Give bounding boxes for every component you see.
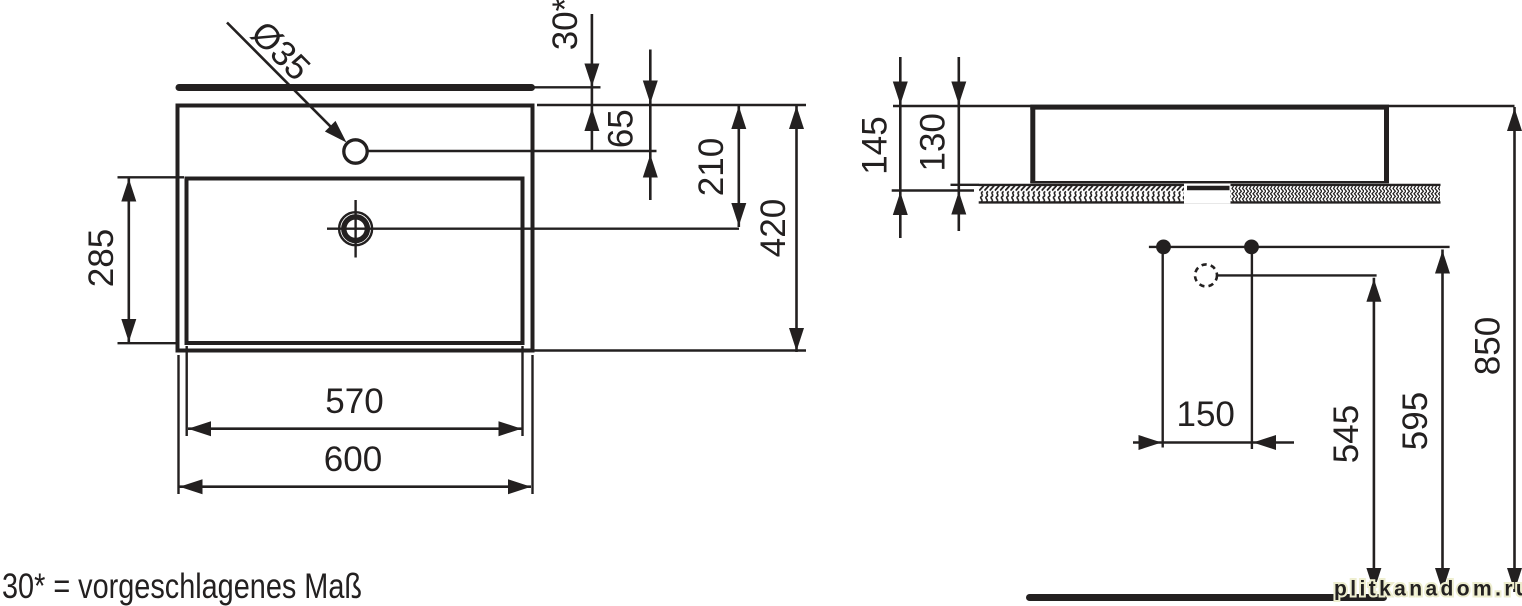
dim 570 line (188, 427, 522, 430)
dim 130 line (957, 57, 960, 231)
dim 145 bottom extension line (892, 189, 974, 191)
dim 30* line (591, 14, 594, 151)
side view body: top edge (thick) (1030, 105, 1389, 110)
basin inner rectangle (187, 179, 523, 344)
svg-text:145: 145 (855, 116, 894, 174)
dim 145/130 extension tick at strip top (951, 184, 980, 186)
drain gap white window (1184, 184, 1231, 204)
dim 570 extension left (185, 346, 187, 436)
basin outer rectangle (178, 106, 533, 351)
fixing bolts line (1149, 246, 1450, 248)
dim 420 line (795, 105, 798, 352)
side view right edge (1384, 105, 1389, 183)
drain outlet dashed circle (1195, 264, 1217, 286)
drain crosshair horizontal line (extends to 210 dim) (327, 227, 739, 229)
mounting strip top line (979, 184, 1441, 186)
svg-text:545: 545 (1327, 405, 1366, 463)
wall extension line (534, 86, 601, 88)
dim 210 line (737, 105, 740, 227)
svg-text:420: 420 (754, 199, 793, 257)
dim 285 extension bottom (118, 342, 177, 344)
dim 150 line (1133, 441, 1294, 444)
sink-top extension line (537, 104, 806, 106)
floor line (thick) (1030, 594, 1384, 601)
dim 600 extension left (177, 355, 179, 494)
left bolt vertical line (1161, 247, 1163, 448)
svg-text:595: 595 (1396, 392, 1435, 450)
drain outlet line (1218, 274, 1377, 276)
svg-text:850: 850 (1469, 317, 1508, 375)
side view left edge (1030, 105, 1035, 183)
dim 285 extension top (118, 176, 185, 178)
drain gap thick line (1187, 186, 1230, 190)
svg-text:210: 210 (692, 138, 731, 196)
svg-text:600: 600 (324, 440, 382, 479)
leader arrowhead (325, 121, 347, 143)
drain inner circle (344, 217, 368, 241)
wall line (thick) (179, 84, 532, 91)
dim 850 line (1513, 107, 1516, 592)
drain crosshair vertical line (354, 200, 356, 258)
svg-text:30* = vorgeschlagenes Maß: 30* = vorgeschlagenes Maß (2, 567, 362, 606)
svg-text:plitkanadom.ru: plitkanadom.ru (1334, 578, 1522, 601)
top extension line (893, 105, 1515, 107)
faucet hole circle (344, 140, 367, 163)
svg-text:30*: 30* (546, 0, 585, 50)
fixing bolt left dot (1156, 240, 1171, 255)
drain outer circle (339, 212, 372, 245)
svg-text:65: 65 (602, 109, 641, 148)
side view bottom edge (1030, 181, 1389, 183)
leader line for hole diameter (227, 23, 335, 132)
dim 570 extension right (521, 346, 523, 436)
dim 595 line (1441, 250, 1444, 593)
dim 145 line (899, 57, 902, 238)
strip hatch right part (1231, 186, 1441, 202)
dim 285 line (128, 177, 131, 343)
dim 600 line (180, 485, 532, 488)
dim 600 extension right (531, 355, 533, 494)
faucet center line (368, 150, 657, 152)
right bolt vertical line (1251, 247, 1253, 449)
svg-text:570: 570 (325, 382, 383, 421)
mounting strip bottom line (979, 201, 1441, 203)
bottom extension line (535, 349, 807, 351)
dim 65 line (649, 50, 652, 201)
fixing bolt right dot (1244, 240, 1259, 255)
svg-text:130: 130 (913, 113, 952, 171)
strip hatch left part (979, 186, 1184, 202)
dim 545 line (1373, 278, 1376, 592)
svg-text:150: 150 (1176, 395, 1234, 434)
svg-text:285: 285 (82, 229, 121, 287)
